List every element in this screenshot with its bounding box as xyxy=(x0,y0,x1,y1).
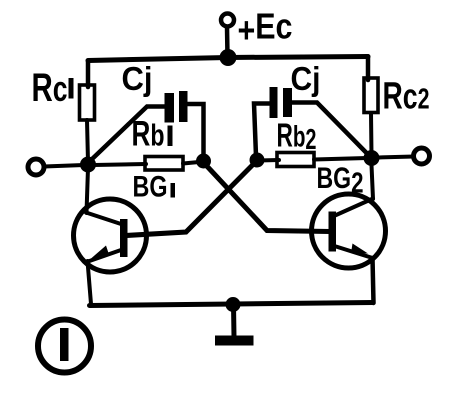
wire BG2 collector xyxy=(372,165,374,199)
resistor Rb1 xyxy=(145,157,183,171)
node B junction xyxy=(364,150,380,166)
resistor Rc2 xyxy=(364,78,378,113)
svg-text:Rb2: Rb2 xyxy=(277,117,317,157)
wire Cj1 to node C xyxy=(187,104,204,156)
svg-text:Rc: Rc xyxy=(32,66,68,110)
svg-text:Rb: Rb xyxy=(132,115,165,154)
capacitor Cj1 xyxy=(165,91,188,123)
circled figure number 1 xyxy=(38,320,91,373)
wire Rb2 to node B xyxy=(314,158,367,160)
wire BG1 collector xyxy=(87,168,89,213)
wire BG2 emitter xyxy=(373,258,374,303)
transistor BG1 xyxy=(74,199,147,272)
label Rb1 xyxy=(132,115,173,154)
terminal left output xyxy=(28,159,44,175)
wire Cj2 to node D xyxy=(254,104,270,157)
wire node D to Rb2 xyxy=(258,158,279,163)
wire bottom rail xyxy=(90,303,374,306)
wire Rc1 bottom xyxy=(87,120,88,162)
svg-text:Cj: Cj xyxy=(122,60,153,97)
node C junction xyxy=(196,154,211,169)
node A junction xyxy=(80,157,96,173)
wire left terminal xyxy=(44,165,84,167)
wire node A to Cj1 xyxy=(90,107,165,162)
label Rc1 xyxy=(32,66,74,110)
wire Cj2 to node B xyxy=(292,103,370,157)
junction ground dot xyxy=(226,297,241,312)
junction supply dot xyxy=(220,49,237,66)
wire supply stub xyxy=(225,27,230,56)
wire node C to BG2 base xyxy=(204,163,330,232)
wire node D to BG1 base xyxy=(126,162,256,236)
resistor Rb2 xyxy=(277,153,314,167)
wire top rail xyxy=(88,57,368,61)
wire node A to Rb1 xyxy=(94,164,146,165)
transistor BG2 xyxy=(312,194,386,268)
svg-text:Rc2: Rc2 xyxy=(383,76,430,118)
wire Rc1 top xyxy=(86,61,91,88)
svg-text:Cj: Cj xyxy=(291,60,321,97)
svg-text:BG2: BG2 xyxy=(317,162,364,200)
wire Rc2 bottom xyxy=(369,113,374,155)
svg-text:BG: BG xyxy=(133,171,168,204)
terminal right output xyxy=(414,148,430,164)
wire BG1 emitter xyxy=(88,261,92,304)
label BG1 xyxy=(133,171,176,204)
wire Rb1 to node C xyxy=(183,162,199,164)
capacitor Cj2 xyxy=(270,87,293,118)
svg-text:+Ec: +Ec xyxy=(238,6,293,51)
terminal +Ec xyxy=(221,14,234,27)
node D junction xyxy=(250,153,265,168)
resistor Rc1 xyxy=(80,85,95,120)
wire Rc2 top xyxy=(366,57,371,81)
ground xyxy=(215,304,254,346)
wire right terminal xyxy=(378,157,414,158)
